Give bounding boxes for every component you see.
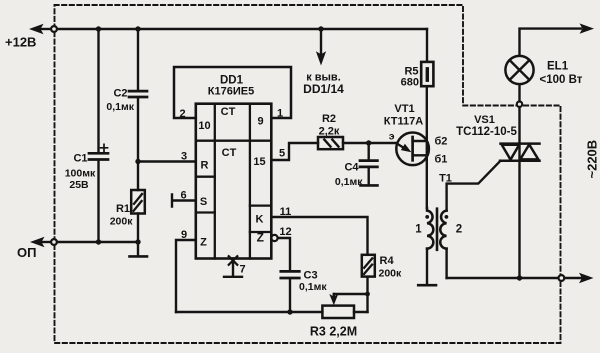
wire R4 bottom — [366, 277, 368, 312]
wire C2 to R1 — [137, 98, 139, 190]
DD1 row dividers — [196, 141, 271, 232]
svg-text:25В: 25В — [69, 179, 89, 191]
svg-text:2: 2 — [179, 108, 185, 120]
T1 polarity dot winding 1 — [425, 215, 429, 219]
svg-text:КТ117А: КТ117А — [384, 115, 423, 127]
label C1 — [65, 152, 96, 191]
wire R5 to b2/b1 to T1 — [426, 86, 428, 208]
svg-text:0,1мк: 0,1мк — [299, 281, 327, 293]
wire pin 3 (R input) — [138, 160, 196, 162]
terminal +12В — [5, 24, 57, 50]
svg-text:7: 7 — [240, 263, 246, 275]
svg-text:200к: 200к — [379, 268, 403, 280]
svg-text:0,1мк: 0,1мк — [106, 101, 134, 113]
svg-text:К176ИЕ5: К176ИЕ5 — [208, 86, 254, 98]
triac VS1 ТС112-10-5 — [500, 144, 540, 161]
node: C1 to rail junction — [96, 26, 101, 31]
IC DD1 body — [196, 104, 271, 259]
potentiometer R3 2,2М — [322, 306, 354, 318]
DD1 internal labels — [198, 106, 265, 249]
resistor R2 2,2к — [318, 137, 343, 149]
svg-text:K: K — [256, 213, 264, 225]
lamp EL1 — [505, 56, 533, 102]
node: triac-output junction — [517, 275, 522, 280]
wire pin 9 (Z input) — [176, 240, 196, 312]
transistor VT1 КТ117А (unijunction) — [396, 133, 429, 166]
transformer T1 winding 2 — [440, 211, 446, 249]
T1 core — [436, 209, 439, 250]
svg-text:DD1/14: DD1/14 — [303, 82, 344, 96]
lamp terminal circle on boundary — [517, 102, 522, 107]
label R4 — [379, 255, 403, 279]
svg-text:2: 2 — [456, 224, 462, 236]
node: C3-bottom junction — [287, 309, 292, 314]
label Т1 — [415, 173, 462, 236]
svg-text:CT: CT — [222, 147, 237, 159]
wire bottom node (pin9/C3/R3) — [176, 311, 322, 313]
R3 wiper arrow — [333, 294, 335, 298]
node: C2 to rail junction — [135, 26, 140, 31]
svg-text:VS1: VS1 — [474, 114, 495, 126]
wire R3 wiper to R4 — [334, 293, 368, 295]
svg-text:э: э — [389, 131, 395, 143]
label VS1 — [456, 114, 517, 138]
capacitor C2 0,1мк — [129, 91, 147, 97]
capacitor C4 0,1мк — [360, 143, 378, 185]
svg-text:0,1мк: 0,1мк — [335, 176, 363, 188]
svg-text:10: 10 — [198, 120, 210, 132]
svg-text:15: 15 — [253, 156, 265, 168]
capacitor C3 0,1мк — [281, 271, 300, 312]
svg-text:1: 1 — [277, 108, 283, 120]
terminal circle output on boundary — [559, 275, 565, 281]
node: DD1/14 branch junction — [318, 26, 323, 31]
svg-text:9: 9 — [257, 116, 263, 128]
node: C4 junction — [366, 140, 371, 145]
pin 7 cross mark — [229, 256, 238, 265]
label DD1 К176ИЕ5 — [208, 75, 254, 98]
svg-text:C4: C4 — [344, 162, 359, 174]
DD1 column dividers — [215, 104, 250, 259]
svg-text:Z: Z — [200, 237, 207, 249]
label C2 — [106, 87, 134, 112]
svg-text:12: 12 — [279, 226, 291, 238]
wire rail corner down to R5 — [426, 29, 428, 62]
svg-text:EL1: EL1 — [547, 60, 569, 72]
svg-text:C2: C2 — [113, 87, 127, 99]
common bar below R1 — [130, 255, 148, 258]
arrow to DD1/14 — [316, 51, 326, 65]
transformer T1 winding 1 — [427, 208, 433, 249]
wire output line ~220V — [447, 277, 559, 279]
wire pin 12 to C3 — [278, 238, 290, 270]
svg-text:R3 2,2М: R3 2,2М — [310, 324, 357, 338]
label к выв. DD1/14 — [303, 72, 344, 96]
terminal ОП — [17, 237, 57, 260]
svg-text:11: 11 — [280, 206, 292, 218]
node: wiper junction — [365, 292, 370, 297]
wire winding2 bottom to output line — [445, 249, 447, 278]
svg-text:C3: C3 — [304, 270, 318, 282]
svg-text:<100 Вт: <100 Вт — [540, 74, 583, 86]
svg-text:200к: 200к — [110, 215, 134, 227]
svg-text:S: S — [200, 196, 207, 208]
node: R1-ОП junction — [135, 239, 140, 244]
resistor R1 200к — [131, 190, 145, 214]
svg-text:R4: R4 — [380, 255, 395, 267]
svg-text:VT1: VT1 — [394, 103, 414, 115]
svg-text:CT: CT — [221, 106, 236, 118]
label VT1 КТ117А — [384, 103, 448, 165]
wire winding1 bottom to common bar — [426, 249, 428, 285]
node: C1-ОП junction — [96, 239, 101, 244]
wire output arrow — [564, 277, 581, 279]
wire R1 to common tail — [137, 214, 139, 256]
wire rail to C1 — [97, 29, 99, 152]
svg-text:+12В: +12В — [5, 35, 36, 50]
svg-text:2,2к: 2,2к — [319, 126, 340, 138]
wire lamp top corner and arrow out — [520, 29, 582, 56]
wire R2 to VT1 emitter — [343, 142, 396, 144]
wire winding2 top to triac gate — [447, 161, 501, 211]
IC DD1 outer feedback loop (pins 1-2) — [174, 67, 291, 118]
svg-text:1: 1 — [415, 224, 422, 236]
label R1 — [110, 203, 134, 227]
svg-text:R: R — [201, 160, 209, 172]
svg-text:5: 5 — [279, 147, 285, 159]
wire R3 right terminal — [354, 311, 368, 313]
wire ОП rail — [57, 241, 138, 243]
svg-text:C1: C1 — [73, 152, 87, 164]
label R2 — [319, 113, 340, 137]
capacitor C1 100мк 25В (electrolytic) — [89, 144, 108, 159]
svg-text:~220В: ~220В — [585, 140, 600, 179]
wire rail to DD1 pin14 arrow — [320, 30, 322, 54]
wire +12V rail — [57, 28, 427, 30]
wire C1 to ОП rail — [97, 161, 99, 242]
label R5 — [401, 66, 419, 89]
svg-text:6: 6 — [180, 189, 186, 201]
svg-text:9: 9 — [181, 229, 187, 241]
T1 polarity dot winding 2 — [445, 215, 449, 219]
svg-text:б1: б1 — [435, 154, 448, 166]
svg-text:680: 680 — [401, 76, 419, 88]
inversion bubble pin 12 — [271, 235, 277, 241]
svg-text:Z: Z — [257, 230, 264, 244]
pin 7 wire and common bar — [224, 259, 242, 277]
svg-text:ТС112-10-5: ТС112-10-5 — [456, 126, 517, 138]
wire rail to C2 — [137, 29, 139, 90]
svg-text:100мк: 100мк — [65, 167, 96, 179]
pin 6 input stub (S) — [172, 195, 196, 207]
svg-text:R2: R2 — [322, 113, 336, 125]
wire pin 5 (15 output) to R2 — [271, 143, 318, 160]
svg-text:Т1: Т1 — [439, 173, 452, 185]
svg-text:ОП: ОП — [17, 245, 36, 260]
wire pin 11 (K output) to R4 — [271, 217, 367, 255]
svg-text:б2: б2 — [435, 136, 448, 148]
resistor R4 200к — [362, 255, 375, 277]
label C4 — [335, 162, 363, 188]
resistor R5 680 — [421, 62, 433, 86]
node: pin3-R1 junction — [135, 159, 140, 164]
common bar below T1 — [418, 284, 436, 287]
label EL1 — [540, 60, 583, 86]
svg-text:3: 3 — [181, 151, 187, 163]
wire triac main vertical — [518, 107, 520, 278]
label C3 — [299, 270, 327, 294]
svg-text:R1: R1 — [116, 203, 130, 215]
